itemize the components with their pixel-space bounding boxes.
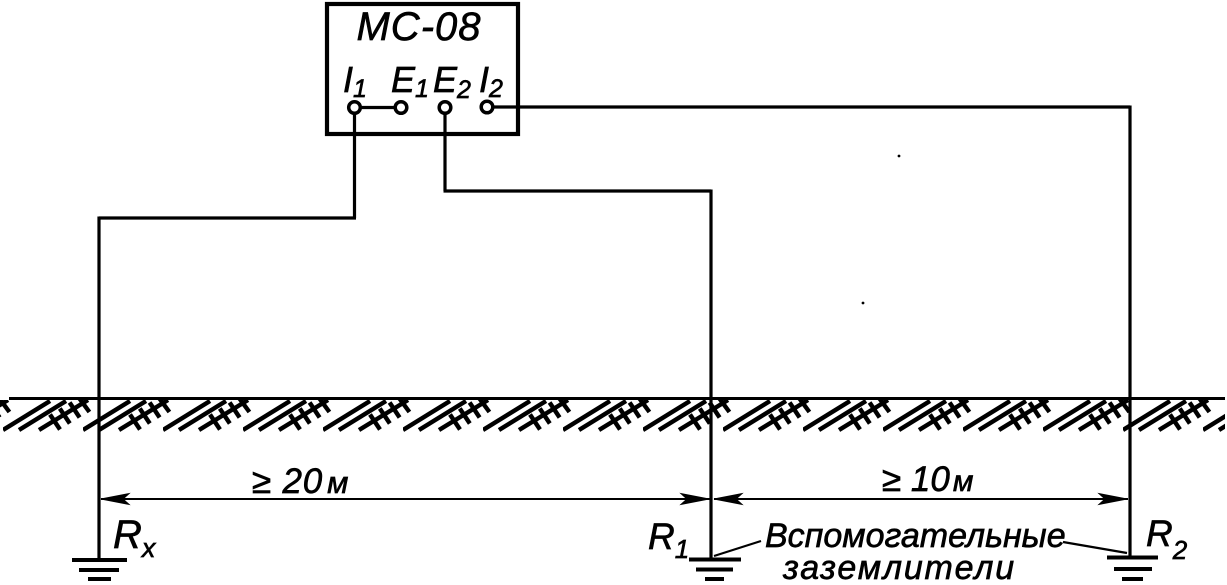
leader line to R1 ground bbox=[714, 541, 761, 556]
soil hatching band bbox=[0, 400, 1225, 433]
speck artifact 1 bbox=[898, 155, 901, 158]
svg-text:МС-08: МС-08 bbox=[356, 5, 481, 49]
svg-text:E2: E2 bbox=[433, 59, 471, 104]
ground symbol Rx bbox=[72, 560, 127, 579]
terminal I2 bbox=[479, 59, 503, 113]
wire R1 electrode vertical bbox=[709, 190, 712, 559]
wire I1 horizontal to Rx bbox=[99, 216, 356, 219]
ground symbol R2 bbox=[1107, 558, 1158, 580]
leader line to R2 ground bbox=[1063, 542, 1127, 553]
wire Rx electrode vertical bbox=[97, 217, 100, 561]
svg-text:Rx: Rx bbox=[113, 513, 157, 563]
terminal E2 bbox=[433, 59, 471, 113]
svg-text:заземлители: заземлители bbox=[782, 549, 1016, 585]
ground symbol R1 bbox=[689, 560, 741, 580]
svg-text:R1: R1 bbox=[648, 516, 689, 564]
svg-text:I1: I1 bbox=[343, 59, 367, 103]
wire E2 horizontal to R1 bbox=[444, 189, 712, 192]
ground surface line bbox=[9, 397, 1225, 400]
wire E2 down bbox=[443, 113, 446, 191]
wire I1 down bbox=[353, 113, 356, 218]
dimension line ≥10м bbox=[714, 494, 1128, 505]
terminal E1 bbox=[391, 59, 429, 113]
dimension line ≥20м bbox=[101, 494, 710, 505]
label Вспомогательные заземлители bbox=[765, 517, 1066, 585]
svg-text:≥ 10м: ≥ 10м bbox=[882, 460, 973, 499]
speck artifact 2 bbox=[862, 302, 865, 305]
terminal I1 bbox=[343, 59, 367, 113]
wire jumper I1-E1 bbox=[360, 106, 396, 109]
svg-text:I2: I2 bbox=[479, 59, 503, 103]
svg-text:E1: E1 bbox=[391, 59, 429, 103]
wire I2 horizontal to R2 bbox=[493, 105, 1131, 108]
instrument box U1 (МС-08 megohmmeter) bbox=[327, 4, 518, 134]
svg-text:≥ 20м: ≥ 20м bbox=[252, 462, 349, 501]
wire R2 electrode vertical bbox=[1128, 106, 1131, 557]
